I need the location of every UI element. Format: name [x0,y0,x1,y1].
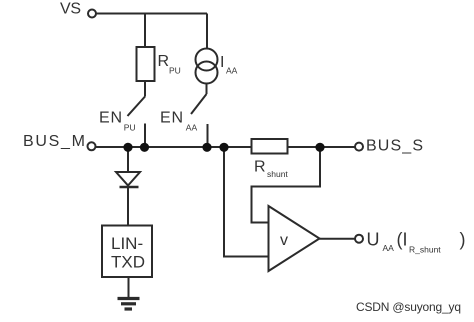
svg-text:shunt: shunt [267,169,288,179]
node VS terminal [88,10,96,18]
switch EN_AA blade [191,94,207,114]
junction dots [123,143,324,152]
svg-text:PU: PU [124,123,136,133]
svg-text:BUS_M: BUS_M [23,133,85,150]
svg-text:AA: AA [226,66,238,76]
wire op-amp output [320,238,356,240]
resistor R_PU [137,47,155,81]
wire switch EN_AA to bus [207,124,209,147]
svg-text:EN: EN [99,110,122,127]
wire diode branch [127,147,129,172]
wire upper op-amp input feedback from R_shunt right [252,147,321,223]
op-amp U1 [269,206,320,271]
svg-text:VS: VS [60,1,81,18]
junction bus diode [123,143,132,152]
wire VS to I_AA [206,14,208,49]
svg-text:I: I [220,54,224,71]
svg-text:EN: EN [160,110,183,127]
switch EN_PU blade [128,97,146,117]
svg-text:R: R [158,53,170,70]
svg-text:CSDN @suyong_yq: CSDN @suyong_yq [356,300,461,314]
wire diode to LIN-TXD [127,188,129,226]
node U_AA terminal [355,235,363,243]
wire VS to R_PU [144,14,146,48]
resistor R_shunt [252,139,288,154]
svg-text:(I: (I [397,230,408,250]
svg-text:TXD: TXD [111,253,145,272]
svg-text:): ) [460,230,466,250]
svg-text:LIN-: LIN- [111,234,143,253]
svg-text:AA: AA [186,123,198,133]
wire R_PU to switch EN_PU [144,81,146,97]
ground [118,299,140,310]
junction bus EN_AA [202,143,211,152]
wire switch EN_PU to bus [144,124,146,148]
svg-text:R_shunt: R_shunt [409,245,441,255]
junction bus R_shunt right [315,143,324,152]
svg-text:v: v [280,232,288,249]
block LIN-TXD [102,226,152,278]
wire I_AA to switch EN_AA [206,84,208,95]
wire VS top rail [96,13,207,15]
wire bus BUS_M to R_shunt [96,146,252,148]
svg-text:PU: PU [169,66,181,76]
diode D1 [116,172,140,186]
current source I_AA [196,49,218,71]
junction bus EN_PU [140,143,149,152]
wire LIN-TXD to ground [128,277,130,297]
junction bus op-amp lower [219,143,228,152]
svg-text:BUS_S: BUS_S [366,138,423,155]
wire R_shunt to BUS_S [288,146,356,148]
svg-text:U: U [367,230,380,250]
node BUS_S terminal [355,143,363,151]
wire lower op-amp input from bus node [224,147,269,257]
svg-text:R: R [254,159,266,176]
node BUS_M terminal [88,142,96,150]
svg-text:AA: AA [383,243,395,253]
